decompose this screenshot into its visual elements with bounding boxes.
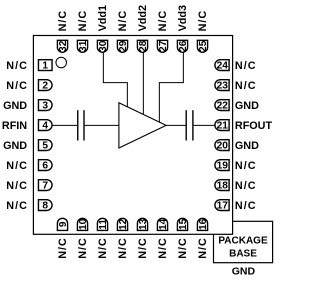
svg-text:22: 22 (217, 101, 229, 112)
svg-text:RFOUT: RFOUT (235, 120, 273, 132)
capacitor C2 (output DC block) (186, 110, 193, 140)
pin 18 (N/C) (215, 180, 257, 192)
pin 25 (N/C) (197, 10, 209, 53)
svg-text:N/C: N/C (157, 10, 169, 32)
wire C2 to RFOUT pin21 (194, 124, 216, 126)
svg-text:24: 24 (217, 61, 229, 72)
svg-text:31: 31 (78, 40, 89, 52)
svg-text:N/C: N/C (6, 60, 28, 72)
svg-text:N/C: N/C (197, 10, 209, 32)
wire C1 to amplifier input (85, 124, 119, 126)
svg-text:N/C: N/C (157, 237, 169, 259)
svg-text:14: 14 (158, 218, 169, 230)
pin 11 (N/C) (97, 218, 109, 259)
svg-text:N/C: N/C (57, 237, 69, 259)
pin 3 (GND) (3, 100, 52, 112)
pin 19 (N/C) (215, 160, 257, 172)
pin 21 (RFOUT) (215, 120, 273, 132)
pin 4 (RFIN) (2, 120, 52, 132)
svg-text:N/C: N/C (235, 200, 257, 212)
pin 5 (GND) (3, 140, 52, 152)
svg-text:23: 23 (217, 81, 229, 92)
svg-text:21: 21 (217, 121, 229, 132)
amplifier A1 (gain block triangle) (119, 103, 166, 148)
wire RFIN pin4 to C1 (52, 124, 77, 126)
svg-text:RFIN: RFIN (2, 120, 27, 132)
svg-text:GND: GND (235, 140, 259, 152)
svg-text:GND: GND (232, 265, 256, 277)
svg-text:27: 27 (158, 40, 169, 52)
svg-text:N/C: N/C (117, 237, 129, 259)
pin 28 (Vdd2) (137, 5, 149, 52)
svg-text:30: 30 (98, 40, 109, 52)
svg-text:N/C: N/C (6, 180, 28, 192)
pin 27 (N/C) (157, 10, 169, 53)
wire Vdd2 pin28 to amplifier (142, 52, 144, 114)
svg-text:GND: GND (3, 140, 27, 152)
pin 24 (N/C) (215, 60, 257, 72)
svg-text:32: 32 (58, 40, 69, 52)
svg-text:25: 25 (198, 40, 209, 52)
pin 23 (N/C) (215, 80, 257, 92)
svg-text:16: 16 (198, 218, 209, 230)
svg-text:GND: GND (3, 100, 27, 112)
wire amplifier output to C2 (166, 124, 185, 126)
pin 32 (N/C) (57, 10, 69, 53)
svg-text:N/C: N/C (235, 80, 257, 92)
pin 1 (N/C) (6, 60, 52, 72)
svg-text:6: 6 (42, 161, 48, 172)
svg-text:Vdd1: Vdd1 (97, 5, 109, 31)
svg-text:N/C: N/C (97, 237, 109, 259)
svg-text:3: 3 (42, 101, 48, 112)
svg-text:8: 8 (42, 201, 48, 212)
svg-text:PACKAGE: PACKAGE (218, 236, 268, 247)
svg-text:N/C: N/C (235, 160, 257, 172)
pin 16 (N/C) (197, 218, 209, 259)
svg-text:GND: GND (235, 100, 259, 112)
svg-text:Vdd3: Vdd3 (177, 5, 189, 31)
svg-text:17: 17 (217, 201, 229, 212)
svg-text:5: 5 (42, 141, 48, 152)
wire Vdd3 pin26 to amplifier (159, 52, 183, 122)
pin 14 (N/C) (157, 218, 169, 259)
svg-text:11: 11 (98, 219, 109, 230)
IC package outline U1 (33, 36, 232, 235)
svg-text:N/C: N/C (57, 10, 69, 32)
pin 1 indicator circle (56, 57, 66, 68)
pin 9 (N/C) (57, 218, 69, 259)
svg-text:1: 1 (42, 61, 48, 72)
svg-text:N/C: N/C (117, 10, 129, 32)
pin 13 (N/C) (137, 218, 149, 259)
pin 22 (GND) (215, 100, 259, 112)
svg-text:N/C: N/C (6, 160, 28, 172)
pin 31 (N/C) (77, 10, 89, 53)
pin 15 (N/C) (177, 218, 189, 259)
svg-text:7: 7 (42, 181, 48, 192)
pin 29 (N/C) (117, 10, 129, 53)
package base ground pad box (214, 221, 273, 262)
wire Vdd1 pin30 to amplifier (103, 52, 127, 107)
svg-text:9: 9 (58, 221, 69, 227)
svg-text:N/C: N/C (6, 200, 28, 212)
svg-text:N/C: N/C (137, 237, 149, 259)
svg-text:28: 28 (138, 40, 149, 52)
svg-text:2: 2 (42, 81, 48, 92)
svg-text:Vdd2: Vdd2 (137, 5, 149, 31)
svg-text:18: 18 (217, 181, 229, 192)
svg-text:N/C: N/C (77, 10, 89, 32)
svg-text:10: 10 (78, 218, 89, 230)
svg-text:N/C: N/C (177, 237, 189, 259)
svg-text:4: 4 (42, 121, 48, 132)
pin 30 (Vdd1) (97, 5, 109, 52)
svg-text:20: 20 (217, 141, 229, 152)
pin 6 (N/C) (6, 160, 52, 172)
svg-text:BASE: BASE (229, 248, 257, 259)
svg-text:N/C: N/C (6, 80, 28, 92)
svg-text:19: 19 (217, 161, 229, 172)
pin 17 (N/C) (215, 200, 257, 212)
svg-text:29: 29 (118, 40, 129, 52)
svg-text:13: 13 (138, 218, 149, 230)
pin 10 (N/C) (77, 218, 89, 259)
svg-text:N/C: N/C (235, 60, 257, 72)
pin 7 (N/C) (6, 180, 52, 192)
pin 8 (N/C) (6, 200, 52, 212)
pin 26 (Vdd3) (177, 5, 189, 52)
svg-text:N/C: N/C (77, 237, 89, 259)
svg-text:26: 26 (178, 40, 189, 52)
svg-text:N/C: N/C (235, 180, 257, 192)
svg-text:N/C: N/C (197, 237, 209, 259)
pin 20 (GND) (215, 140, 259, 152)
svg-text:12: 12 (118, 218, 129, 230)
pin 2 (N/C) (6, 80, 52, 92)
capacitor C1 (input DC block) (78, 110, 84, 140)
svg-text:15: 15 (178, 218, 189, 230)
pin 12 (N/C) (117, 218, 129, 259)
